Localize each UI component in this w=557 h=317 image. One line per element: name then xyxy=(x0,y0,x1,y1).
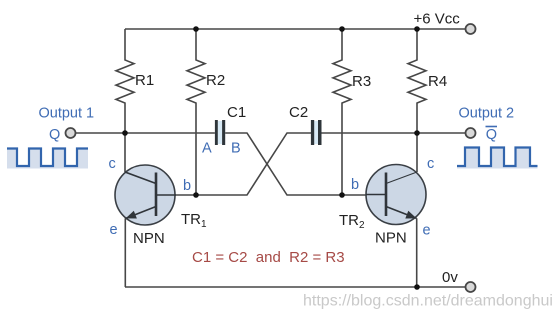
svg-text:c: c xyxy=(109,156,116,172)
svg-text:b: b xyxy=(183,178,191,194)
svg-text:R3: R3 xyxy=(352,73,371,90)
svg-text:Output 2: Output 2 xyxy=(459,106,515,122)
svg-text:A: A xyxy=(202,141,212,157)
svg-text:NPN: NPN xyxy=(133,230,165,247)
svg-text:R4: R4 xyxy=(428,73,447,90)
svg-text:NPN: NPN xyxy=(375,230,407,247)
svg-text:C2: C2 xyxy=(289,104,308,121)
svg-text:e: e xyxy=(423,223,431,239)
svg-text:B: B xyxy=(231,141,241,157)
svg-text:Output 1: Output 1 xyxy=(39,106,95,122)
svg-text:Q: Q xyxy=(486,127,497,143)
svg-text:b: b xyxy=(351,177,359,193)
svg-text:+6 Vcc: +6 Vcc xyxy=(414,11,461,28)
svg-text:0v: 0v xyxy=(442,269,458,286)
svg-text:c: c xyxy=(427,156,434,172)
svg-text:R2: R2 xyxy=(206,72,225,89)
svg-text:e: e xyxy=(110,222,118,238)
svg-text:C1 = C2 and R2 = R3: C1 = C2 and R2 = R3 xyxy=(192,249,345,266)
svg-text:C1: C1 xyxy=(227,104,246,121)
svg-text:R1: R1 xyxy=(135,72,154,89)
svg-text:Q: Q xyxy=(49,127,60,143)
svg-text:https://blog.csdn.net/dreamdon: https://blog.csdn.net/dreamdonghui xyxy=(303,293,553,310)
